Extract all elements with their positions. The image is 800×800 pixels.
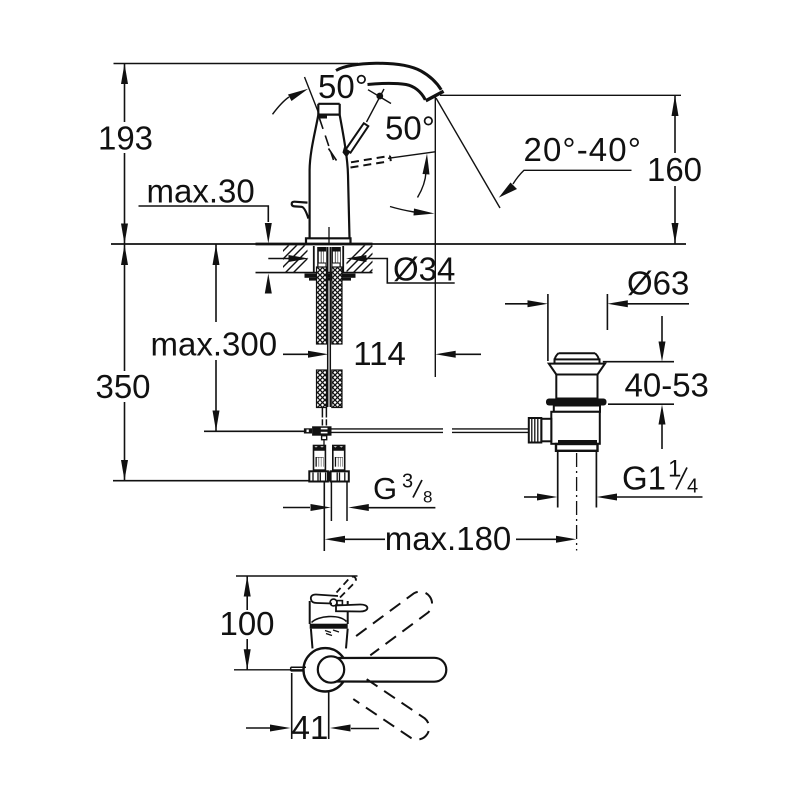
deck hatch right [330, 240, 402, 280]
Ø63 dimension [505, 265, 689, 362]
tailpipe [557, 451, 559, 508]
upper body [556, 375, 597, 399]
spout tip [311, 594, 338, 603]
svg-text:50°: 50° [385, 110, 435, 147]
svg-text:41: 41 [292, 709, 329, 746]
pop-up knob left [292, 202, 309, 219]
plug top [559, 352, 596, 354]
horizontal pop-up rod [332, 429, 530, 433]
dark band [310, 624, 348, 629]
350 dimension [95, 245, 309, 481]
deck hatch left [254, 240, 326, 280]
Ø34 label [268, 251, 455, 288]
svg-text:193: 193 [98, 120, 153, 157]
boss [541, 419, 551, 442]
side lever [336, 604, 367, 611]
cone [549, 364, 605, 375]
svg-text:1: 1 [668, 456, 681, 483]
threaded shank in deck [314, 246, 343, 272]
20-40 label + leader [499, 131, 642, 198]
faucet centerline [328, 227, 330, 244]
top reference line (193) [114, 63, 359, 65]
114 dimension [283, 335, 481, 372]
max.30 dimension [139, 173, 272, 294]
dashed small raised side-lever [337, 577, 356, 598]
deck line [111, 243, 686, 245]
svg-text:100: 100 [219, 605, 274, 642]
lever axis thin line to pivot X [367, 89, 385, 122]
max.300 dimension [151, 245, 306, 432]
collar [556, 444, 598, 451]
inner circle [318, 656, 344, 682]
body dashed internal lines [320, 119, 337, 161]
svg-text:max.30: max.30 [147, 173, 255, 210]
neck [292, 104, 351, 244]
washer under deck [305, 274, 356, 278]
seal [546, 399, 607, 406]
swing-down arc arrow [390, 207, 414, 213]
hatch marks under band [325, 630, 339, 636]
svg-text:Ø34: Ø34 [393, 251, 455, 288]
svg-text:G1: G1 [622, 460, 666, 497]
nuts [309, 471, 349, 481]
spout [336, 63, 444, 101]
dashed lower lever (front view) [353, 679, 429, 739]
pop-up vertical rod [322, 247, 330, 426]
20-40 water stream diagonal [436, 98, 500, 208]
pop-up rod junction [304, 426, 332, 446]
max.180 dimension [324, 482, 576, 557]
41 dimension [246, 673, 379, 746]
svg-text:max.300: max.300 [151, 326, 278, 363]
shank inserts [317, 247, 341, 267]
svg-text:350: 350 [95, 368, 150, 405]
main body [551, 412, 600, 444]
lever lowered dashed [351, 156, 391, 168]
svg-text:4: 4 [687, 475, 698, 497]
svg-text:160: 160 [647, 151, 702, 188]
svg-text:20°-40°: 20°-40° [524, 131, 643, 168]
160 dimension [440, 95, 702, 243]
left tab [291, 667, 306, 671]
dashed upper lever (front view) [356, 592, 432, 656]
svg-text:40-53: 40-53 [625, 367, 709, 404]
outer circle [304, 648, 347, 691]
curve inside [312, 617, 347, 623]
lever raised [343, 123, 369, 157]
svg-text:G: G [373, 471, 397, 506]
50deg-1 extension line [305, 77, 320, 114]
G1 1/4 dimension [524, 456, 703, 501]
body outline [310, 115, 319, 238]
svg-text:8: 8 [423, 488, 432, 507]
right connector [333, 445, 345, 471]
drain centerline [576, 453, 578, 551]
193 dimension [98, 64, 153, 245]
G3/8 connectors [309, 445, 349, 521]
sub body [554, 406, 600, 412]
svg-text:50°: 50° [318, 68, 368, 105]
svg-text:3: 3 [402, 471, 413, 493]
bottom black band [558, 440, 597, 444]
hoses lower segment [317, 370, 343, 408]
svg-text:max.180: max.180 [385, 520, 512, 557]
left connector [313, 445, 325, 471]
100 dimension [219, 576, 274, 670]
knurl [529, 418, 542, 443]
G3/8 dimension [283, 471, 435, 512]
hoses upper segment [317, 267, 343, 344]
lowered lever axis thin line [388, 152, 435, 159]
solid lever [337, 658, 446, 682]
top ref line [236, 575, 358, 577]
faucet front view [291, 594, 447, 691]
40-53 dimension [603, 316, 709, 449]
lip [555, 359, 600, 363]
body [309, 601, 311, 624]
deck cross-section bottom line [256, 272, 373, 274]
svg-text:114: 114 [353, 335, 406, 372]
lower body [311, 629, 313, 649]
svg-text:Ø63: Ø63 [627, 265, 689, 302]
50deg-1 leader arc+arrow [273, 97, 290, 114]
swing-up arc arrow [418, 172, 427, 198]
right pipe below [330, 482, 332, 521]
pivot X marker [368, 90, 391, 104]
vertical ref line at spout tip [434, 96, 436, 377]
base flange [306, 238, 351, 243]
bottom ref line [234, 669, 304, 671]
